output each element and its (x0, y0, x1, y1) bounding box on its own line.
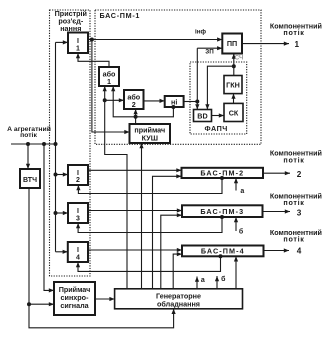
svg-text:1: 1 (295, 40, 300, 49)
svg-text:ФАПЧ: ФАПЧ (205, 124, 228, 133)
svg-text:БАС-ПМ-3: БАС-ПМ-3 (200, 207, 244, 216)
svg-text:потік: потік (283, 235, 304, 244)
svg-text:ЗП: ЗП (205, 48, 214, 55)
svg-text:ВТЧ: ВТЧ (23, 177, 37, 184)
svg-text:СК: СК (229, 109, 239, 118)
svg-text:І: І (77, 208, 79, 215)
svg-text:а: а (201, 277, 205, 284)
svg-text:BD: BD (197, 112, 207, 121)
svg-text:інф: інф (195, 28, 207, 36)
svg-text:ПП: ПП (227, 39, 237, 48)
svg-text:ГКН: ГКН (226, 81, 240, 90)
svg-text:потік: потік (283, 28, 304, 37)
svg-text:І: І (77, 170, 79, 177)
svg-text:потік: потік (20, 131, 37, 139)
svg-text:б: б (221, 275, 226, 283)
svg-text:1: 1 (76, 46, 80, 53)
svg-text:3: 3 (297, 208, 302, 217)
svg-text:ні: ні (171, 98, 177, 107)
svg-text:БАС-ПМ-2: БАС-ПМ-2 (200, 169, 244, 178)
svg-text:І: І (77, 38, 79, 45)
svg-text:нання: нання (60, 24, 81, 33)
svg-text:сигнала: сигнала (60, 301, 89, 310)
svg-text:КУШ: КУШ (142, 134, 158, 143)
svg-text:3: 3 (76, 216, 80, 223)
svg-text:4: 4 (76, 255, 80, 262)
svg-text:БАС-ПМ-1: БАС-ПМ-1 (100, 11, 141, 20)
svg-text:2: 2 (76, 177, 80, 184)
svg-text:а: а (240, 188, 244, 195)
svg-text:2: 2 (132, 100, 136, 109)
svg-text:І: І (77, 247, 79, 254)
svg-text:потік: потік (283, 156, 304, 165)
svg-text:2: 2 (297, 170, 302, 179)
svg-text:БАС-ПМ-4: БАС-ПМ-4 (201, 247, 245, 256)
svg-text:обладнання: обладнання (157, 299, 200, 308)
svg-text:4: 4 (297, 247, 302, 256)
svg-text:б: б (239, 227, 244, 235)
svg-text:СЧ: СЧ (235, 54, 244, 61)
svg-text:потік: потік (283, 198, 304, 207)
svg-text:1: 1 (107, 77, 111, 86)
